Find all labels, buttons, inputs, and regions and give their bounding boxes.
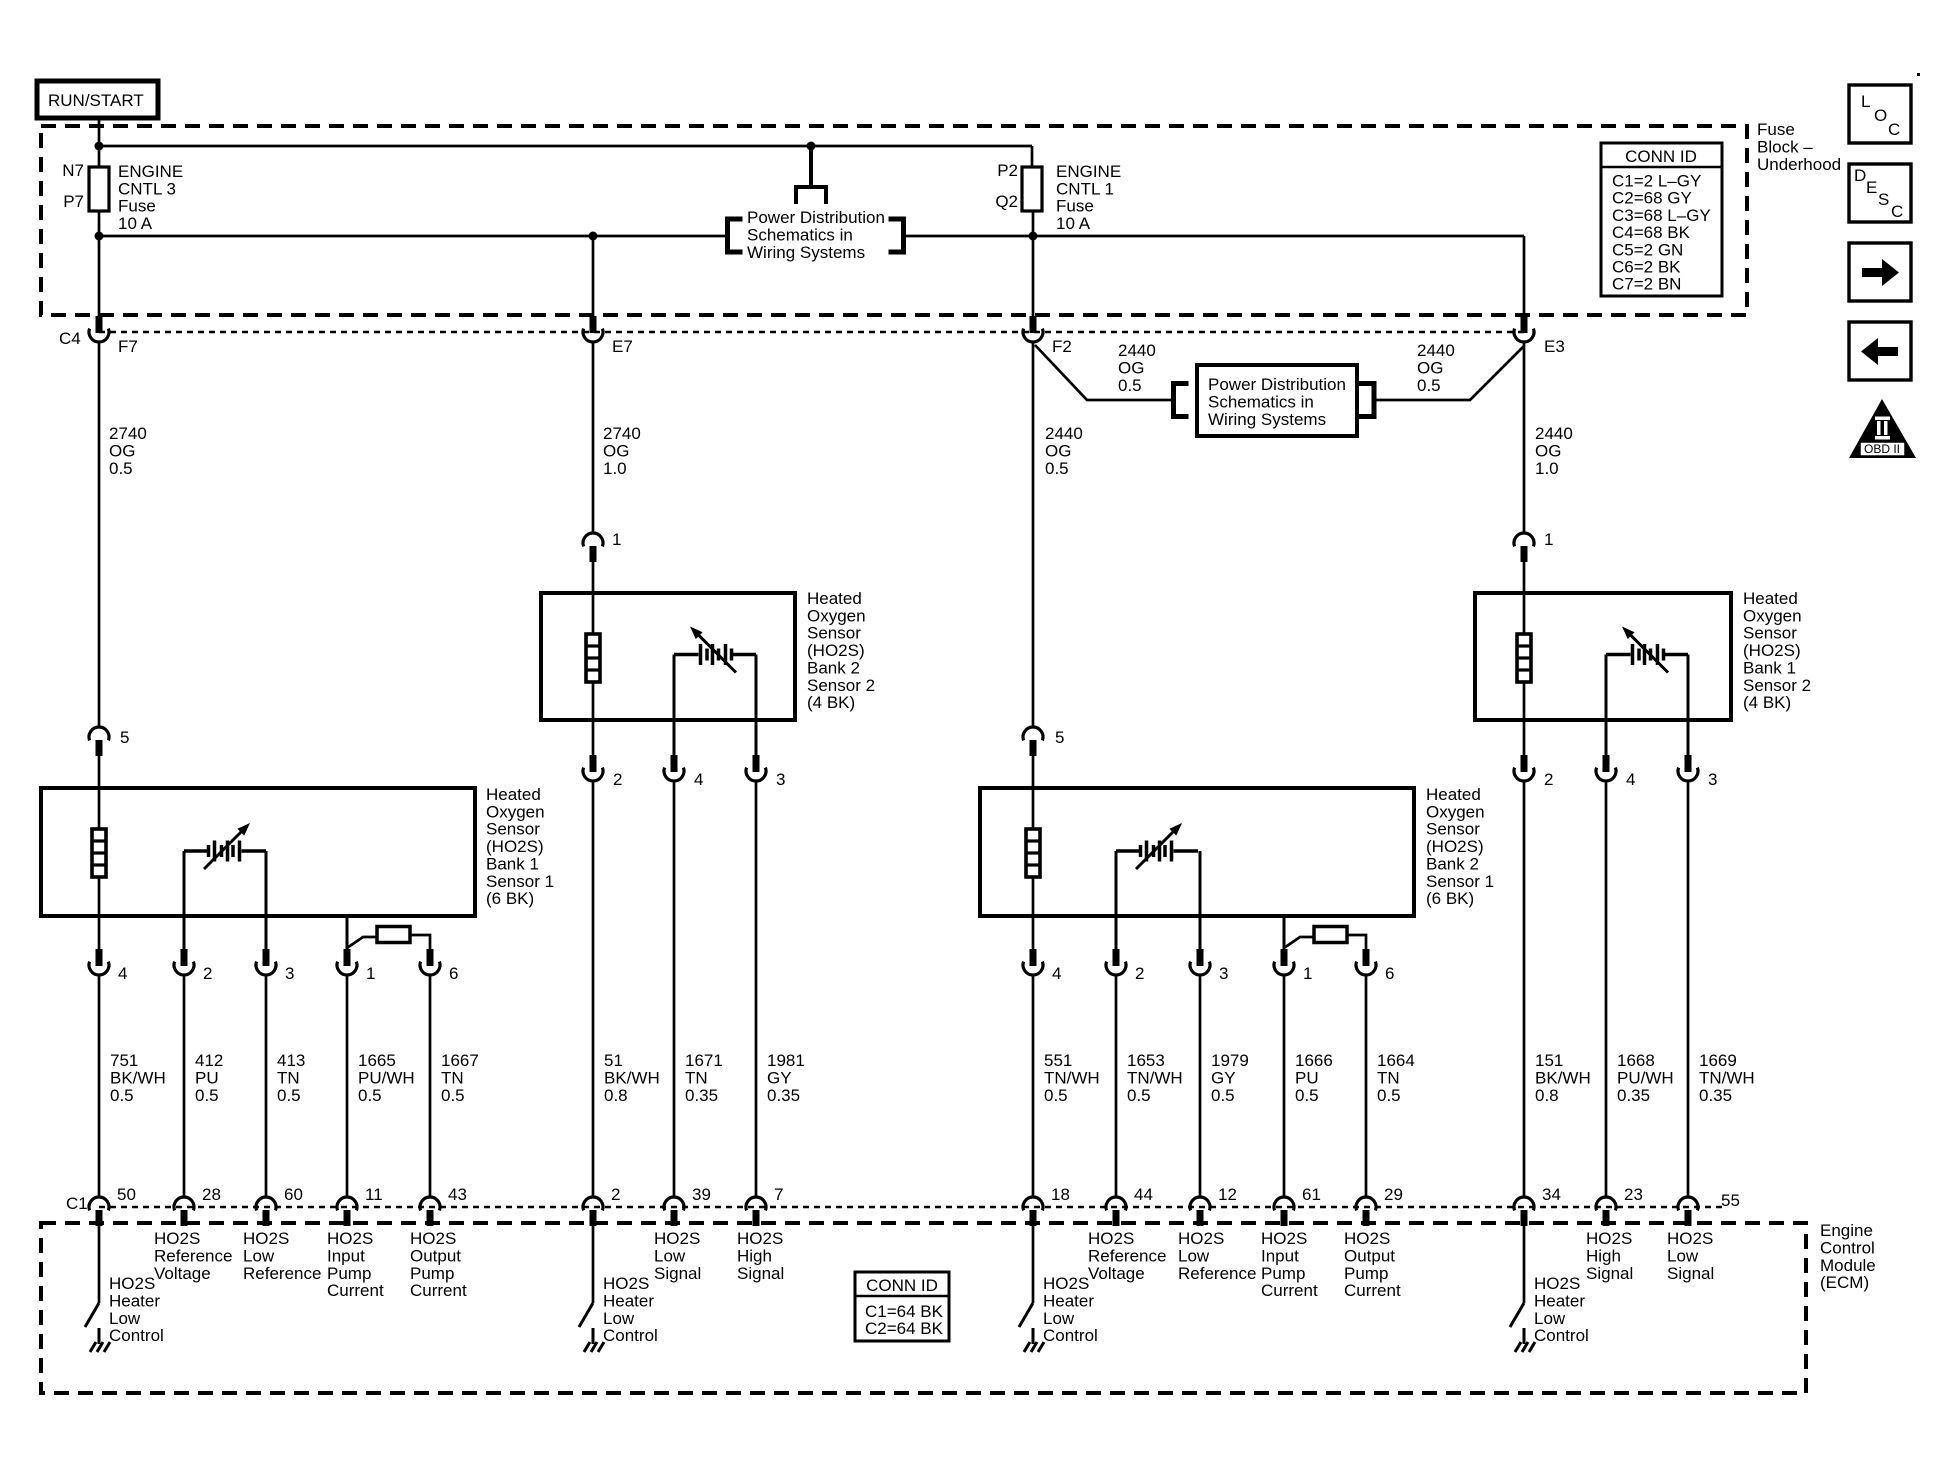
wire: second bus corner down to E3 connector xyxy=(1523,236,1526,316)
ECM connector pin 29 xyxy=(1356,1197,1376,1210)
svg-text:Oxygen: Oxygen xyxy=(486,802,545,821)
svg-text:C1=2 L–GY: C1=2 L–GY xyxy=(1612,172,1701,191)
svg-text:HO2S: HO2S xyxy=(1344,1229,1390,1248)
svg-text:TN/WH: TN/WH xyxy=(1127,1068,1183,1087)
svg-text:6: 6 xyxy=(449,964,458,983)
svg-text:0.5: 0.5 xyxy=(1377,1086,1401,1105)
svg-text:Engine: Engine xyxy=(1820,1221,1873,1240)
svg-text:Heater: Heater xyxy=(603,1291,654,1310)
svg-text:Power Distribution: Power Distribution xyxy=(747,208,885,227)
svg-text:Low: Low xyxy=(1534,1309,1566,1328)
svg-text:(6 BK): (6 BK) xyxy=(1426,889,1474,908)
svg-text:High: High xyxy=(737,1246,772,1265)
svg-text:0.5: 0.5 xyxy=(358,1086,382,1105)
svg-text:Signal: Signal xyxy=(1667,1264,1714,1283)
svg-text:OG: OG xyxy=(603,441,629,460)
svg-text:4: 4 xyxy=(1626,770,1635,789)
connector E3 xyxy=(1521,316,1528,333)
wire into HO2S B2S1 xyxy=(1032,756,1035,829)
svg-text:Schematics in: Schematics in xyxy=(1208,392,1314,411)
svg-text:1665: 1665 xyxy=(358,1051,396,1070)
wire: diagonal from F2 to power distribution ref xyxy=(1035,345,1171,400)
svg-text:0.8: 0.8 xyxy=(604,1086,628,1105)
svg-text:2440: 2440 xyxy=(1118,341,1156,360)
svg-text:CONN ID: CONN ID xyxy=(1625,147,1697,166)
svg-text:HO2S: HO2S xyxy=(327,1229,373,1248)
svg-text:2: 2 xyxy=(613,770,622,789)
ECM connector pin 18 xyxy=(1023,1197,1043,1210)
svg-text:0.5: 0.5 xyxy=(1211,1086,1235,1105)
svg-text:Current: Current xyxy=(327,1281,384,1300)
svg-text:Module: Module xyxy=(1820,1256,1876,1275)
wire: heater to pin 2 xyxy=(1523,682,1526,755)
svg-text:Control: Control xyxy=(1820,1238,1875,1257)
svg-text:Low: Low xyxy=(603,1309,635,1328)
wire: circuit 1667 TN 0.5 to ECM xyxy=(429,976,432,1196)
svg-text:18: 18 xyxy=(1051,1185,1070,1204)
svg-text:C1=64 BK: C1=64 BK xyxy=(865,1302,944,1321)
ECM connector pin 44 xyxy=(1106,1197,1126,1210)
svg-text:4: 4 xyxy=(1052,964,1061,983)
svg-text:HO2S: HO2S xyxy=(1178,1229,1224,1248)
ECM connector pin 50 xyxy=(89,1197,109,1210)
svg-text:(4 BK): (4 BK) xyxy=(807,693,855,712)
wire: top bus corner down to fuse P2 xyxy=(1031,146,1034,167)
svg-text:0.5: 0.5 xyxy=(1118,376,1142,395)
svg-text:1979: 1979 xyxy=(1211,1051,1249,1070)
connector pin 2 (B1S1) xyxy=(181,949,188,966)
wire: circuit 1981 GY 0.35 to ECM xyxy=(755,782,758,1196)
svg-text:Sensor: Sensor xyxy=(1743,624,1797,643)
svg-text:High: High xyxy=(1586,1246,1621,1265)
svg-text:0.5: 0.5 xyxy=(277,1086,301,1105)
ECM connector pin 34 xyxy=(1514,1197,1534,1210)
sensor cell battery (B2S1) xyxy=(1116,849,1139,853)
svg-text:C4=68 BK: C4=68 BK xyxy=(1612,223,1691,242)
sensor cell battery (B1S2) xyxy=(1606,627,1688,673)
CONN ID table (ECM) xyxy=(855,1272,949,1341)
svg-text:OG: OG xyxy=(1535,441,1561,460)
svg-text:HO2S: HO2S xyxy=(1586,1229,1632,1248)
svg-text:Sensor: Sensor xyxy=(486,820,540,839)
svg-text:C6=2 BK: C6=2 BK xyxy=(1612,258,1681,277)
svg-text:Pump: Pump xyxy=(1261,1264,1305,1283)
svg-text:Low: Low xyxy=(1178,1246,1210,1265)
svg-text:Reference: Reference xyxy=(243,1264,321,1283)
svg-text:Bank 1: Bank 1 xyxy=(1743,658,1796,677)
wire: stub to power distribution fork xyxy=(809,146,813,187)
wire: circuit 1664 TN 0.5 to ECM xyxy=(1365,976,1368,1196)
svg-text:1.0: 1.0 xyxy=(603,459,627,478)
connector pin 2 (B2S2) xyxy=(590,755,597,772)
svg-text:Heated: Heated xyxy=(1426,785,1481,804)
svg-text:Schematics in: Schematics in xyxy=(747,225,853,244)
svg-text:Sensor 2: Sensor 2 xyxy=(807,676,875,695)
connector pin 1 (B1S1) xyxy=(344,949,351,966)
svg-text:Fuse: Fuse xyxy=(1056,197,1094,216)
connector pin 2 (B2S1) xyxy=(1113,949,1120,966)
svg-text:3: 3 xyxy=(285,964,294,983)
svg-text:151: 151 xyxy=(1535,1051,1563,1070)
svg-text:(4 BK): (4 BK) xyxy=(1743,693,1791,712)
connector pin 3 (B1S2) xyxy=(1685,755,1692,772)
svg-text:1664: 1664 xyxy=(1377,1051,1415,1070)
svg-text:C: C xyxy=(1891,202,1903,221)
wire: second bus horizontal right segment xyxy=(906,235,1524,238)
svg-text:23: 23 xyxy=(1624,1185,1643,1204)
svg-text:D: D xyxy=(1854,166,1866,185)
connector F7 xyxy=(96,316,103,333)
wire into HO2S B1S2 xyxy=(1523,562,1526,634)
svg-text:1981: 1981 xyxy=(767,1051,805,1070)
node: junction top bus to power distribution stub xyxy=(807,142,816,151)
svg-text:34: 34 xyxy=(1542,1185,1561,1204)
svg-text:Pump: Pump xyxy=(410,1264,454,1283)
svg-text:Heater: Heater xyxy=(1043,1291,1094,1310)
svg-text:Low: Low xyxy=(654,1246,686,1265)
svg-text:2440: 2440 xyxy=(1535,424,1573,443)
svg-text:TN: TN xyxy=(277,1068,300,1087)
svg-text:Sensor: Sensor xyxy=(807,624,861,643)
wire: pin 34 to heater low control switch xyxy=(1523,1226,1526,1303)
wire: heater to pin 2 xyxy=(592,682,595,755)
wire: diagonal from E3 to power distribution ref xyxy=(1376,346,1524,400)
engine control module dashed box xyxy=(41,1223,1806,1393)
svg-text:RUN/START: RUN/START xyxy=(48,91,144,110)
trim resistor (B2S1) xyxy=(1284,937,1314,948)
svg-text:0.35: 0.35 xyxy=(1617,1086,1650,1105)
svg-text:1: 1 xyxy=(366,964,375,983)
wire: circuit 413 TN 0.5 to ECM xyxy=(265,976,268,1196)
svg-text:Bank 2: Bank 2 xyxy=(1426,854,1479,873)
connector line C4 (dotted) xyxy=(99,331,1525,334)
svg-text:Pump: Pump xyxy=(1344,1264,1388,1283)
svg-text:751: 751 xyxy=(110,1051,138,1070)
connector pin 5 (HO2S B2S1) xyxy=(1023,727,1043,740)
svg-text:Heater: Heater xyxy=(1534,1291,1585,1310)
CONN ID table (fuse block) xyxy=(1601,143,1722,296)
fork to power distribution schematics xyxy=(794,185,828,189)
svg-text:0.5: 0.5 xyxy=(110,1086,134,1105)
wire: battery left lead to pin 2 xyxy=(1115,851,1118,949)
switch and ground (pin 18) xyxy=(1019,1303,1033,1327)
svg-text:C: C xyxy=(1888,120,1900,139)
svg-text:Control: Control xyxy=(109,1326,164,1345)
svg-text:Block –: Block – xyxy=(1757,137,1813,156)
svg-text:P2: P2 xyxy=(997,161,1018,180)
svg-text:Fuse: Fuse xyxy=(1757,120,1795,139)
svg-text:Bank 2: Bank 2 xyxy=(807,658,860,677)
connector pin 4 (B1S1) xyxy=(96,949,103,966)
svg-text:HO2S: HO2S xyxy=(603,1274,649,1293)
svg-text:BK/WH: BK/WH xyxy=(1535,1068,1591,1087)
svg-text:PU/WH: PU/WH xyxy=(358,1068,415,1087)
svg-text:1.0: 1.0 xyxy=(1535,459,1559,478)
svg-text:0.5: 0.5 xyxy=(1044,1086,1068,1105)
svg-text:2: 2 xyxy=(1135,964,1144,983)
svg-text:TN: TN xyxy=(685,1068,708,1087)
svg-text:C2=64 BK: C2=64 BK xyxy=(865,1319,944,1338)
wire: circuit 751 BK/WH 0.5 to ECM xyxy=(98,976,101,1196)
svg-text:413: 413 xyxy=(277,1051,305,1070)
trim resistor (B1S1) xyxy=(347,937,377,948)
wire: circuit 1653 TN/WH 0.5 to ECM xyxy=(1115,976,1118,1196)
svg-text:Wiring Systems: Wiring Systems xyxy=(747,243,865,262)
svg-text:61: 61 xyxy=(1302,1185,1321,1204)
svg-text:Reference: Reference xyxy=(154,1246,232,1265)
svg-text:2740: 2740 xyxy=(603,424,641,443)
connector pin 6 (B2S1) xyxy=(1363,949,1370,966)
svg-text:F7: F7 xyxy=(118,337,138,356)
wire: battery right lead to pin 3 xyxy=(755,655,758,756)
svg-text:L: L xyxy=(1861,92,1870,111)
connector F2 xyxy=(1030,316,1037,333)
stray dot top right xyxy=(1917,73,1920,76)
wire into HO2S B1S1 xyxy=(98,756,101,829)
wire: pin 1 lead from box xyxy=(346,916,349,949)
svg-text:51: 51 xyxy=(604,1051,623,1070)
svg-text:Oxygen: Oxygen xyxy=(1426,802,1485,821)
heater element (B1S1) xyxy=(92,829,106,877)
connector E7 xyxy=(590,316,597,333)
svg-text:BK/WH: BK/WH xyxy=(110,1068,166,1087)
svg-text:HO2S: HO2S xyxy=(154,1229,200,1248)
svg-text:TN: TN xyxy=(441,1068,464,1087)
HO2S Bank 1 Sensor 2 box xyxy=(1475,593,1731,720)
svg-text:HO2S: HO2S xyxy=(737,1229,783,1248)
wire: E7 branch vertical xyxy=(592,236,595,316)
svg-text:2: 2 xyxy=(203,964,212,983)
sensor cell battery (B1S1) xyxy=(184,849,207,853)
svg-text:Signal: Signal xyxy=(654,1264,701,1283)
svg-text:C5=2 GN: C5=2 GN xyxy=(1612,240,1683,259)
switch and ground (pin 2) xyxy=(579,1303,593,1327)
bracket right of power distribution ref 2 xyxy=(1372,381,1377,419)
svg-text:ENGINE: ENGINE xyxy=(1056,162,1121,181)
svg-text:4: 4 xyxy=(118,964,127,983)
connector pin 1 (B2S1) xyxy=(1281,949,1288,966)
svg-text:1667: 1667 xyxy=(441,1051,479,1070)
HO2S Bank 1 Sensor 1 box xyxy=(41,788,475,916)
svg-text:TN: TN xyxy=(1377,1068,1400,1087)
svg-text:Heated: Heated xyxy=(807,589,862,608)
svg-text:OG: OG xyxy=(1045,441,1071,460)
svg-text:HO2S: HO2S xyxy=(1043,1274,1089,1293)
ECM connector pin 55 xyxy=(1678,1197,1698,1210)
svg-text:50: 50 xyxy=(117,1185,136,1204)
svg-text:Output: Output xyxy=(410,1246,461,1265)
wire: circuit 1665 PU/WH 0.5 to ECM xyxy=(346,976,349,1196)
wire: circuit 412 PU 0.5 to ECM xyxy=(183,976,186,1196)
svg-text:CNTL 1: CNTL 1 xyxy=(1056,179,1114,198)
svg-text:C7=2 BN: C7=2 BN xyxy=(1612,275,1681,294)
bracket right of power distribution text 1 xyxy=(901,217,906,255)
wire: circuit 2440 OG 1.0 (E3 down) xyxy=(1523,343,1526,532)
connector pin 4 (B2S1) xyxy=(1030,949,1037,966)
connector pin 5 (HO2S B1S1) xyxy=(89,727,109,740)
svg-text:2440: 2440 xyxy=(1045,424,1083,443)
svg-text:0.5: 0.5 xyxy=(1295,1086,1319,1105)
svg-text:10 A: 10 A xyxy=(118,214,153,233)
switch and ground (pin 50) xyxy=(85,1303,99,1327)
svg-text:0.5: 0.5 xyxy=(1417,376,1441,395)
svg-text:C2=68 GY: C2=68 GY xyxy=(1612,189,1692,208)
svg-text:(6 BK): (6 BK) xyxy=(486,889,534,908)
wire: heater to pin 4 xyxy=(1032,877,1035,949)
svg-text:551: 551 xyxy=(1044,1051,1072,1070)
connector pin 6 (B1S1) xyxy=(427,949,434,966)
svg-text:Low: Low xyxy=(1667,1246,1699,1265)
RUN/START hot feed box xyxy=(37,81,158,118)
wire: circuit 1669 TN/WH 0.35 to ECM xyxy=(1687,782,1690,1196)
svg-text:Pump: Pump xyxy=(327,1264,371,1283)
svg-text:44: 44 xyxy=(1134,1185,1153,1204)
svg-text:E: E xyxy=(1866,178,1877,197)
svg-text:Reference: Reference xyxy=(1178,1264,1256,1283)
sensor cell battery (B2S2) xyxy=(674,627,756,673)
svg-text:412: 412 xyxy=(195,1051,223,1070)
svg-text:E7: E7 xyxy=(612,337,633,356)
svg-text:Wiring Systems: Wiring Systems xyxy=(1208,410,1326,429)
svg-text:0.8: 0.8 xyxy=(1535,1086,1559,1105)
ECM connector pin 7 xyxy=(746,1197,766,1210)
svg-text:7: 7 xyxy=(774,1185,783,1204)
svg-text:HO2S: HO2S xyxy=(1088,1229,1134,1248)
svg-text:PU: PU xyxy=(195,1068,219,1087)
connector pin 1 (HO2S B2S2) xyxy=(583,533,603,546)
svg-text:GY: GY xyxy=(767,1068,792,1087)
wire: battery left lead to pin 4 xyxy=(673,655,676,756)
fuse F1 ENGINE CNTL 3 10A xyxy=(89,167,109,211)
connector pin 2 (B1S2) xyxy=(1521,755,1528,772)
svg-text:1669: 1669 xyxy=(1699,1051,1737,1070)
wire: circuit 51 BK/WH 0.8 to ECM xyxy=(592,782,595,1196)
svg-text:3: 3 xyxy=(1708,770,1717,789)
svg-text:N7: N7 xyxy=(62,161,84,180)
svg-text:HO2S: HO2S xyxy=(410,1229,456,1248)
svg-text:(HO2S): (HO2S) xyxy=(1426,837,1484,856)
wire: circuit 1666 PU 0.5 to ECM xyxy=(1283,976,1286,1196)
svg-text:12: 12 xyxy=(1218,1185,1237,1204)
svg-text:OG: OG xyxy=(1118,358,1144,377)
svg-text:(HO2S): (HO2S) xyxy=(807,641,865,660)
svg-text:Power Distribution: Power Distribution xyxy=(1208,375,1346,394)
svg-text:0.5: 0.5 xyxy=(195,1086,219,1105)
svg-text:Low: Low xyxy=(1043,1309,1075,1328)
svg-text:0.35: 0.35 xyxy=(1699,1086,1732,1105)
svg-text:39: 39 xyxy=(692,1185,711,1204)
wire: circuit 1671 TN 0.35 to ECM xyxy=(673,782,676,1196)
svg-text:0.5: 0.5 xyxy=(109,459,133,478)
svg-text:Q2: Q2 xyxy=(995,192,1018,211)
heater element (B1S2) xyxy=(1517,634,1531,682)
svg-text:O: O xyxy=(1874,106,1887,125)
svg-text:2440: 2440 xyxy=(1417,341,1455,360)
svg-text:Sensor 1: Sensor 1 xyxy=(1426,872,1494,891)
bracket left of power distribution text 1 xyxy=(725,217,730,255)
ECM connector pin 61 xyxy=(1274,1197,1294,1210)
wire: circuit 1668 PU/WH 0.35 to ECM xyxy=(1605,782,1608,1196)
svg-text:Signal: Signal xyxy=(737,1264,784,1283)
wire: circuit 1979 GY 0.5 to ECM xyxy=(1199,976,1202,1196)
wire: circuit 2740 OG 0.5 (F7 down) xyxy=(98,343,101,726)
svg-text:4: 4 xyxy=(694,770,703,789)
connector pin 3 (B1S1) xyxy=(263,949,270,966)
svg-text:0.35: 0.35 xyxy=(767,1086,800,1105)
svg-text:Control: Control xyxy=(603,1326,658,1345)
svg-text:OG: OG xyxy=(1417,358,1443,377)
wire: circuit 2440 OG 0.5 (F2 down) xyxy=(1032,343,1035,726)
svg-text:C3=68 L–GY: C3=68 L–GY xyxy=(1612,206,1711,225)
wire: battery right lead to pin 3 xyxy=(1687,655,1690,756)
svg-text:Current: Current xyxy=(1344,1281,1401,1300)
svg-text:Output: Output xyxy=(1344,1246,1395,1265)
wire: second bus horizontal left segment xyxy=(99,235,725,238)
svg-text:Input: Input xyxy=(327,1246,365,1265)
ECM connector pin 23 xyxy=(1596,1197,1616,1210)
wire: battery left lead to pin 2 xyxy=(183,851,186,949)
svg-text:HO2S: HO2S xyxy=(1261,1229,1307,1248)
ECM connector pin 11 xyxy=(337,1197,357,1210)
connector pin 4 (B2S2) xyxy=(671,755,678,772)
ECM connector pin 12 xyxy=(1190,1197,1210,1210)
svg-text:HO2S: HO2S xyxy=(109,1274,155,1293)
icon forward arrow box xyxy=(1849,243,1911,301)
svg-text:PU: PU xyxy=(1295,1068,1319,1087)
svg-text:5: 5 xyxy=(120,728,129,747)
node: junction E7 branch xyxy=(589,232,598,241)
svg-text:5: 5 xyxy=(1055,728,1064,747)
wire: top bus horizontal xyxy=(99,145,1032,148)
svg-text:Reference: Reference xyxy=(1088,1246,1166,1265)
svg-text:GY: GY xyxy=(1211,1068,1236,1087)
svg-text:Signal: Signal xyxy=(1586,1264,1633,1283)
wire: battery left lead to pin 4 xyxy=(1605,655,1608,756)
svg-text:Oxygen: Oxygen xyxy=(1743,606,1802,625)
svg-text:1666: 1666 xyxy=(1295,1051,1333,1070)
heater element (B2S1) xyxy=(1026,829,1040,877)
svg-text:60: 60 xyxy=(284,1185,303,1204)
svg-text:0.35: 0.35 xyxy=(685,1086,718,1105)
wire: fuse P7 down to second bus xyxy=(98,211,101,316)
svg-text:Sensor 1: Sensor 1 xyxy=(486,872,554,891)
svg-text:Control: Control xyxy=(1534,1326,1589,1345)
node: junction under fuse CNTL3 xyxy=(95,232,104,241)
ECM connector pin 43 xyxy=(420,1197,440,1210)
svg-text:0.5: 0.5 xyxy=(441,1086,465,1105)
ECM connector pin 2 xyxy=(583,1197,603,1210)
svg-text:TN/WH: TN/WH xyxy=(1699,1068,1755,1087)
svg-text:3: 3 xyxy=(776,770,785,789)
svg-text:1: 1 xyxy=(612,530,621,549)
switch and ground (pin 34) xyxy=(1510,1303,1524,1327)
svg-text:0.5: 0.5 xyxy=(1045,459,1069,478)
svg-text:CNTL 3: CNTL 3 xyxy=(118,179,176,198)
wire: fuse Q2 down to F2 connector xyxy=(1032,211,1035,316)
svg-text:10 A: 10 A xyxy=(1056,214,1091,233)
svg-text:(HO2S): (HO2S) xyxy=(1743,641,1801,660)
svg-text:3: 3 xyxy=(1219,964,1228,983)
svg-text:HO2S: HO2S xyxy=(243,1229,289,1248)
svg-text:43: 43 xyxy=(448,1185,467,1204)
svg-text:6: 6 xyxy=(1385,964,1394,983)
svg-text:(HO2S): (HO2S) xyxy=(486,837,544,856)
svg-text:Heated: Heated xyxy=(1743,589,1798,608)
HO2S Bank 2 Sensor 2 box xyxy=(541,593,795,720)
svg-text:Underhood: Underhood xyxy=(1757,155,1841,174)
svg-text:Fuse: Fuse xyxy=(118,197,156,216)
wire into HO2S B2S2 xyxy=(592,562,595,634)
